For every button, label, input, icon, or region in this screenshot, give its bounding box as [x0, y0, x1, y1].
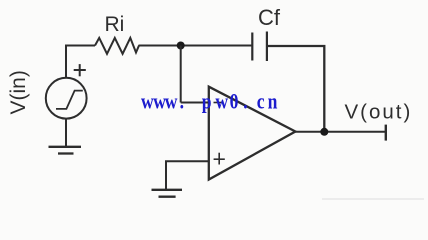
wire resistor to capacitor	[139, 45, 252, 47]
output terminal pin	[385, 125, 387, 141]
ground under source	[49, 147, 82, 154]
plus sign of source V1	[74, 64, 86, 76]
wire junction down	[180, 46, 182, 103]
resistor Ri	[95, 38, 139, 54]
wire source top to corner and resistor	[66, 46, 95, 79]
op-amp plus input symbol	[214, 153, 225, 165]
voltage source V1 (V(in) sine/ramp source circle)	[46, 78, 87, 119]
wire to op-amp inverting input	[181, 102, 209, 104]
wire capacitor to corner	[267, 46, 324, 132]
node junction at output	[320, 128, 328, 136]
svg-text:Cf: Cf	[258, 5, 281, 30]
svg-text:V(out): V(out)	[345, 101, 413, 124]
wire source bottom to ground	[65, 119, 67, 147]
svg-text:V(in): V(in)	[7, 70, 30, 114]
wire op-amp output	[295, 131, 386, 133]
op-amp minus input symbol	[214, 102, 222, 104]
op-amp U1	[209, 87, 296, 180]
node junction at inverting input	[177, 42, 185, 50]
svg-text:www.pw0.cn: www.pw0.cn	[141, 90, 278, 114]
ground under op-amp	[152, 190, 183, 197]
capacitor Cf	[252, 32, 267, 62]
svg-text:Ri: Ri	[105, 13, 125, 36]
faint separator line bottom right	[322, 198, 424, 200]
wire op-amp non-inverting input to ground	[166, 161, 209, 189]
